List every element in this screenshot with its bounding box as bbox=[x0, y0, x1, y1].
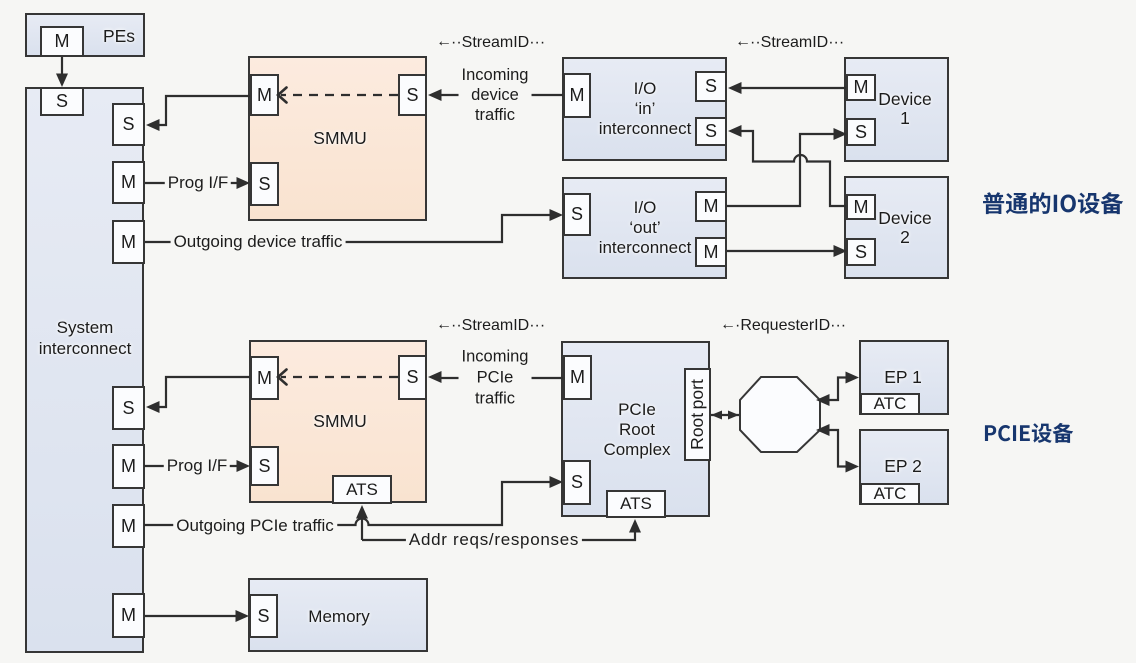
box Device 2 bbox=[844, 176, 949, 279]
port M of interconnect (outgoing dev) bbox=[112, 220, 145, 264]
box EP 2 bbox=[859, 429, 949, 505]
box ATS of SMMU PCIe bbox=[332, 475, 392, 504]
port S1 of I/O in interconnect bbox=[695, 71, 727, 102]
port M of interconnect (Prog I/F PCIe) bbox=[112, 444, 145, 489]
label Incoming device traffic bbox=[459, 65, 532, 125]
label EP 1 bbox=[884, 368, 922, 387]
wire switch to EP2 (double arrow) bbox=[816, 424, 859, 473]
label SMMU PCIe bbox=[313, 411, 366, 431]
label System interconnect bbox=[39, 318, 132, 359]
port M of SMMU device bbox=[250, 74, 279, 116]
label Addr reqs/responses bbox=[406, 531, 582, 549]
wire SMMU M to interconnect S (PCIe) bbox=[146, 377, 250, 413]
label PEs bbox=[103, 27, 135, 46]
label Outgoing PCIe traffic bbox=[173, 517, 337, 535]
wire SMMU internal dashed (device) bbox=[278, 88, 398, 103]
box ATC of EP 1 bbox=[860, 393, 920, 415]
port M of interconnect (outgoing PCIe) bbox=[112, 504, 145, 548]
box I/O 'in' interconnect bbox=[562, 57, 727, 161]
wire SMMU M to interconnect S (device) bbox=[146, 96, 250, 131]
port M2 of I/O out interconnect bbox=[695, 237, 727, 267]
box I/O 'out' interconnect bbox=[562, 177, 727, 279]
wire RC M to SMMU S (incoming PCIe traffic) bbox=[428, 371, 563, 383]
port S of PCIe Root Complex bbox=[563, 460, 591, 505]
label Device 2 bbox=[878, 209, 932, 247]
label Prog I/F (PCIe) bbox=[164, 457, 230, 475]
wire SMMU internal dashed (PCIe) bbox=[278, 370, 398, 385]
wire Prog I/F (PCIe) bbox=[144, 460, 250, 472]
port M1 of I/O out interconnect bbox=[695, 191, 727, 222]
label Outgoing device traffic bbox=[171, 233, 346, 251]
port S of Device 2 bbox=[846, 238, 876, 266]
wire interconnect M to Memory S bbox=[145, 610, 249, 622]
wire Root port to switch (double arrow) bbox=[711, 411, 739, 420]
box ATS of Root Complex bbox=[606, 490, 666, 518]
port S of I/O out interconnect bbox=[563, 193, 591, 236]
label Prog I/F (device) bbox=[165, 174, 231, 192]
label I/O in interconnect bbox=[599, 79, 692, 139]
label PCIe Root Complex bbox=[603, 400, 670, 460]
port M of Device 1 bbox=[846, 74, 876, 101]
wire outgoing device traffic to I/O-out S bbox=[145, 209, 563, 242]
box SMMU (device) bbox=[248, 56, 427, 221]
box PCIe Root Complex bbox=[561, 341, 710, 517]
port S2 of I/O in interconnect bbox=[695, 117, 727, 146]
wire Prog I/F (device) bbox=[145, 177, 250, 189]
box EP 1 bbox=[859, 340, 949, 415]
label Memory bbox=[308, 607, 369, 626]
box PEs bbox=[25, 13, 145, 57]
port M of PCIe Root Complex bbox=[563, 355, 592, 400]
label EP 2 bbox=[884, 457, 922, 476]
wire I/O-in M to SMMU S (incoming device traffic) bbox=[428, 89, 563, 101]
wire Device1 M to I/O-in S1 bbox=[728, 82, 846, 94]
port S of SMMU PCIe (translation in) bbox=[398, 355, 427, 400]
wire Device2 M to I/O-in S2 (with hop) bbox=[728, 125, 846, 206]
label StreamID (PCIe) bbox=[436, 317, 545, 335]
port M of interconnect (to Memory) bbox=[112, 593, 145, 638]
port S of interconnect (from SMMU PCIe) bbox=[112, 386, 145, 430]
port S of interconnect (from PEs) bbox=[40, 87, 84, 116]
port S of SMMU device (translation in) bbox=[398, 74, 427, 116]
wire I/O-out M2 to Device2 S bbox=[727, 245, 847, 257]
port M of Device 2 bbox=[846, 194, 876, 220]
wire switch to EP1 (double arrow) bbox=[816, 372, 859, 407]
port S of SMMU PCIe (Prog I/F) bbox=[250, 446, 279, 486]
port S of interconnect (from SMMU dev) bbox=[112, 103, 145, 146]
box ATC of EP 2 bbox=[860, 483, 920, 505]
box Memory bbox=[248, 578, 428, 652]
label StreamID (device right) bbox=[735, 34, 844, 52]
port M of PEs bbox=[40, 26, 84, 57]
port S of SMMU device (Prog I/F) bbox=[250, 162, 279, 206]
port M of SMMU PCIe bbox=[250, 356, 279, 400]
wire outgoing PCIe traffic to RC S (with hop) bbox=[144, 476, 563, 525]
wire PEs M to interconnect S bbox=[56, 57, 68, 87]
label Incoming PCIe traffic bbox=[459, 347, 532, 410]
label StreamID (device) bbox=[436, 34, 545, 52]
octagon PCIe switch bbox=[740, 377, 820, 452]
port M of I/O in interconnect bbox=[563, 73, 591, 118]
label RequesterID bbox=[720, 317, 846, 335]
wire Addr reqs/responses (ATS to ATS) bbox=[356, 505, 641, 540]
label Device 1 bbox=[878, 90, 932, 128]
port S of Memory bbox=[249, 594, 278, 638]
box Device 1 bbox=[844, 57, 949, 162]
wire I/O-out M1 to Device1 S bbox=[727, 128, 847, 206]
box System interconnect bbox=[25, 87, 144, 653]
port S of Device 1 bbox=[846, 118, 876, 146]
box Root port of PCIe Root Complex bbox=[684, 368, 711, 461]
label I/O out interconnect bbox=[599, 198, 692, 258]
port M of interconnect (Prog I/F dev) bbox=[112, 161, 145, 204]
box SMMU (PCIe) bbox=[249, 340, 427, 503]
label SMMU device bbox=[313, 128, 366, 148]
